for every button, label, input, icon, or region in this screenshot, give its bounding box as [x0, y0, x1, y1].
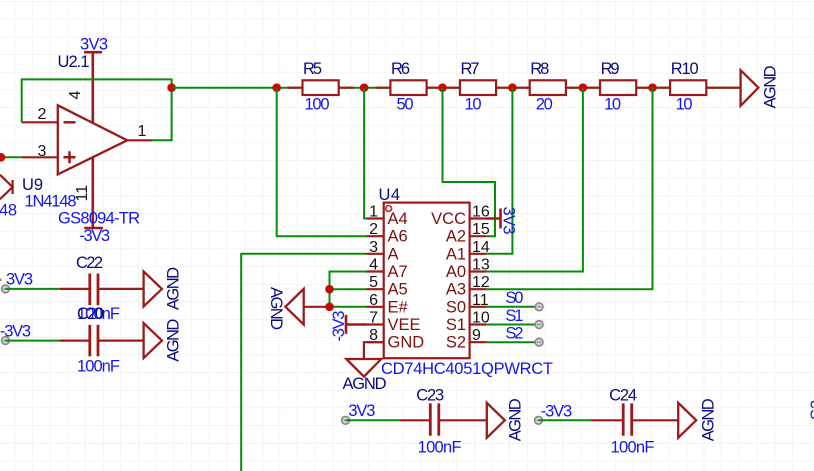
connector pin -3V3 (C24): [535, 416, 543, 424]
svg-text:AGND: AGND: [165, 319, 183, 362]
ground AGND (right of C22): [144, 271, 162, 306]
ground AGND (right of C24): [678, 403, 696, 438]
svg-text:AGND: AGND: [267, 287, 285, 330]
svg-text:10: 10: [465, 96, 482, 114]
wire: bus node 6 to U4 pin 12: [486, 88, 652, 290]
svg-text:4: 4: [369, 257, 378, 274]
svg-text:C20: C20: [77, 305, 104, 323]
svg-text:S1: S1: [505, 307, 523, 325]
svg-text:A4: A4: [388, 210, 408, 228]
svg-text:A1: A1: [446, 245, 466, 263]
svg-text:C22: C22: [76, 254, 103, 272]
svg-text:3: 3: [38, 143, 47, 160]
diode U9 (partial at left edge): [0, 175, 13, 199]
svg-text:R9: R9: [601, 60, 620, 78]
wire: bus node 1 to U4 pin 2: [277, 88, 367, 237]
svg-text:R8: R8: [530, 60, 549, 78]
junction U4 pin 5 tie: [325, 285, 334, 294]
IC U4 body: [384, 203, 470, 359]
wire: U4 pin 3 to bottom edge: [241, 254, 366, 471]
svg-text:2: 2: [369, 221, 378, 238]
wire: U4 pin 8 to ground: [364, 342, 384, 359]
capacitor C23: [399, 403, 487, 435]
svg-text:100nF: 100nF: [77, 357, 120, 375]
capacitor C22: [59, 274, 143, 306]
ground AGND (right of C23): [487, 403, 505, 438]
svg-text:5: 5: [369, 274, 378, 291]
op-amp U1 triangle: [58, 105, 127, 174]
svg-text:S1: S1: [446, 316, 466, 334]
svg-text:GND: GND: [388, 334, 425, 352]
wire: 3V3 to C22: [5, 288, 59, 290]
svg-text:U2.1: U2.1: [58, 53, 90, 71]
svg-text:3V3: 3V3: [6, 271, 33, 289]
junction U4 pin 6 tie: [325, 303, 334, 312]
wire: bus node 4 to U4 pin 14: [486, 88, 512, 254]
junction node 6: [648, 83, 657, 92]
svg-text:3V3: 3V3: [80, 36, 108, 54]
connector pin -3V3 (C20): [2, 337, 10, 345]
svg-text:S2: S2: [505, 324, 523, 342]
svg-text:A3: A3: [446, 281, 466, 299]
wire: feedback loop output to pin 2: [22, 79, 172, 140]
capacitor C20: [59, 325, 143, 357]
svg-text:A7: A7: [388, 263, 408, 281]
svg-text:A2: A2: [446, 228, 466, 246]
wire: -3V3 to C24: [539, 419, 591, 421]
ground AGND (below U4 pin 8): [346, 359, 381, 377]
partial pin at left edge: [0, 278, 2, 281]
svg-text:E#: E#: [388, 298, 409, 316]
svg-text:CD74HC4051QPWRCT: CD74HC4051QPWRCT: [381, 360, 553, 378]
junction node 2: [360, 83, 369, 92]
junction feedback/bus node: [167, 83, 176, 92]
wire: U4 pin 9 to connector S2: [486, 341, 539, 343]
svg-text:11: 11: [472, 292, 489, 309]
connector pin S0: [535, 303, 543, 311]
junction node 5: [579, 83, 588, 92]
junction node 1: [272, 83, 281, 92]
svg-text:A0: A0: [446, 263, 466, 281]
svg-text:6: 6: [369, 292, 378, 309]
svg-text:U9: U9: [22, 176, 43, 194]
wire: U4 pin 11 to connector S0: [486, 306, 539, 308]
resistor R5: [288, 80, 354, 95]
svg-text:15: 15: [472, 221, 490, 238]
wire: U4 pins 4,5,6 tie: [330, 272, 367, 307]
svg-text:AGND: AGND: [343, 375, 387, 393]
svg-text:12: 12: [472, 274, 490, 291]
svg-text:VCC: VCC: [431, 210, 466, 228]
svg-text:2: 2: [38, 106, 47, 123]
svg-text:100: 100: [305, 96, 330, 114]
svg-text:-3V3: -3V3: [0, 323, 31, 341]
svg-text:13: 13: [472, 257, 490, 274]
power flag -3V3 (U4 pin 7 VEE): [346, 315, 367, 334]
svg-text:48: 48: [0, 202, 17, 220]
op-amp output pin 1 stub: [127, 139, 152, 141]
svg-text:C23: C23: [416, 386, 444, 404]
svg-text:3V3: 3V3: [500, 207, 518, 235]
resistor R7: [445, 80, 511, 95]
resistor R8: [515, 80, 581, 95]
svg-text:S0: S0: [505, 289, 523, 307]
wire: op-amp pin 3 to left edge: [0, 156, 22, 158]
svg-text:3V3: 3V3: [348, 402, 375, 420]
svg-text:9: 9: [472, 327, 481, 344]
resistor R10: [658, 80, 741, 95]
connector pin S1: [535, 321, 543, 329]
svg-text:AGND: AGND: [507, 398, 525, 441]
svg-text:GS8094-TR: GS8094-TR: [58, 210, 140, 228]
junction node 4: [508, 83, 517, 92]
wire: bus node 2 to U4 pin 1: [364, 88, 366, 219]
svg-text:100nF: 100nF: [418, 439, 462, 457]
capacitor C24: [591, 403, 679, 435]
wire: 3V3 to C23: [346, 419, 400, 421]
wire: -3V3 to C20: [5, 340, 59, 342]
svg-text:R7: R7: [461, 60, 480, 78]
svg-text:AGND: AGND: [762, 65, 780, 108]
svg-text:S2: S2: [446, 334, 466, 352]
svg-text:R5: R5: [303, 60, 322, 78]
svg-text:VEE: VEE: [388, 316, 421, 334]
resistor R9: [585, 80, 651, 95]
svg-text:U4: U4: [379, 186, 401, 204]
svg-text:10: 10: [604, 96, 621, 114]
connector pin 3V3 (C23): [342, 416, 350, 424]
svg-text:1N4148: 1N4148: [25, 193, 77, 211]
svg-text:-3V3: -3V3: [541, 403, 573, 421]
svg-text:8: 8: [369, 327, 378, 344]
svg-text:11: 11: [74, 185, 91, 202]
svg-text:AGND: AGND: [165, 267, 183, 310]
svg-text:AGND: AGND: [700, 398, 718, 441]
svg-text:S3: S3: [808, 400, 814, 420]
op-amp pin 2 stub: [22, 121, 58, 123]
power flag 3V3 (U4 pin 16 VCC): [486, 209, 500, 229]
svg-text:4: 4: [67, 91, 84, 100]
connector pin 3V3 (C22): [2, 285, 10, 293]
svg-text:A: A: [388, 245, 399, 263]
svg-text:A5: A5: [388, 281, 408, 299]
U4 right pin stubs 16-9: [470, 219, 487, 343]
junction at left edge pin 3: [0, 153, 5, 162]
connector pin S2: [535, 338, 543, 346]
junction node 3: [438, 83, 447, 92]
op-amp pin 11 stem and power flag -3V3: [84, 157, 103, 228]
wire: U4 pin 10 to connector S1: [486, 324, 539, 326]
wire: bus node 5 to U4 pin 13: [486, 88, 583, 272]
wire: bus node 3 to U4 pin 15: [443, 88, 496, 237]
svg-text:1: 1: [369, 204, 378, 221]
svg-text:C24: C24: [609, 386, 637, 404]
svg-text:100nF: 100nF: [611, 439, 655, 457]
svg-text:R10: R10: [671, 60, 699, 78]
svg-text:14: 14: [472, 239, 490, 256]
ground AGND (left of U4 pin 6): [285, 289, 329, 325]
op-amp pin 3 stub: [22, 156, 58, 158]
U4 left pin stubs 1-8: [367, 219, 384, 343]
svg-text:3: 3: [369, 239, 378, 256]
ground AGND (right of R10): [741, 70, 759, 106]
svg-text:50: 50: [397, 96, 414, 114]
resistor R6: [376, 80, 442, 95]
wire: main bus: [172, 87, 741, 89]
svg-text:-3V3: -3V3: [80, 227, 111, 245]
ground AGND (right of C20): [144, 323, 162, 358]
svg-text:20: 20: [536, 96, 553, 114]
svg-text:7: 7: [369, 310, 378, 327]
svg-text:R6: R6: [391, 60, 410, 78]
svg-text:-3V3: -3V3: [330, 311, 348, 342]
IC U4 pin 1 indicator: [386, 206, 392, 212]
svg-text:10: 10: [676, 96, 693, 114]
svg-text:S0: S0: [446, 298, 466, 316]
power flag 3V3 (op-amp pin 4): [84, 52, 102, 123]
svg-text:A6: A6: [388, 228, 408, 246]
svg-text:1: 1: [138, 123, 147, 140]
